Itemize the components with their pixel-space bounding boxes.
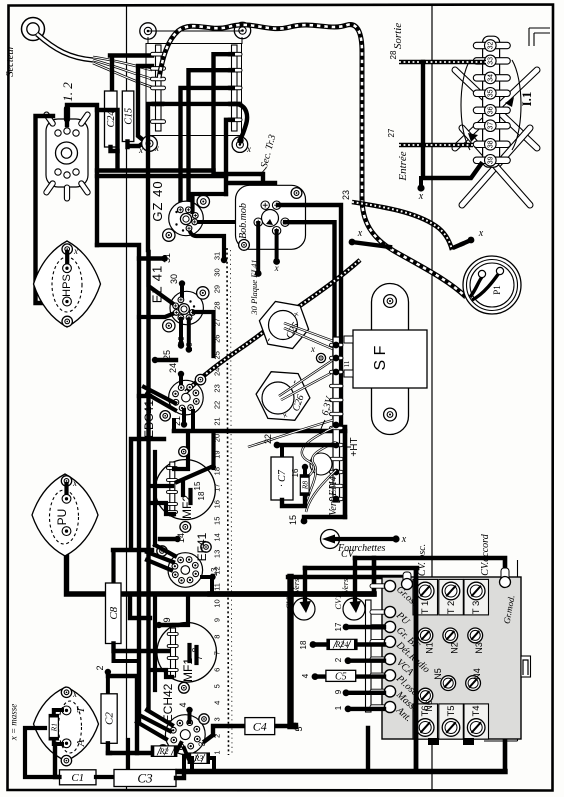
capacitor C1 bbox=[60, 770, 97, 785]
svg-text:25: 25 bbox=[162, 350, 172, 360]
svg-text:x: x bbox=[138, 145, 143, 155]
svg-text:CV.accord: CV.accord bbox=[480, 533, 491, 575]
block top-left pin bbox=[403, 572, 411, 586]
I.1 terminal 33 bbox=[473, 58, 510, 64]
terminal HPS top bbox=[63, 264, 72, 273]
wire I.1 ground leg bbox=[423, 62, 481, 178]
block bottom tabs bbox=[428, 738, 439, 745]
svg-text:23: 23 bbox=[213, 384, 222, 392]
svg-text:· C7: · C7 bbox=[277, 469, 288, 487]
svg-text:37: 37 bbox=[488, 122, 495, 130]
svg-text:x: x bbox=[357, 228, 363, 239]
solder blobs on strip bbox=[333, 342, 340, 349]
capacitor C7 bbox=[280, 445, 284, 457]
capacitor C2 bbox=[105, 669, 111, 675]
wire HPS terminal bar bbox=[65, 252, 69, 268]
wire C4 junction to bus bbox=[366, 728, 370, 771]
resistor R8 bbox=[302, 464, 308, 470]
pickup connector PU bbox=[32, 474, 98, 556]
svg-text:9: 9 bbox=[334, 689, 343, 694]
tube socket EL41 bbox=[170, 291, 203, 324]
wire R1 leads bbox=[54, 710, 62, 715]
wire trunk to EF41 bbox=[147, 552, 173, 562]
svg-text:30: 30 bbox=[213, 268, 222, 276]
svg-text:C5: C5 bbox=[335, 671, 347, 682]
svg-text:35: 35 bbox=[488, 89, 495, 97]
MF1 pin stubs bbox=[187, 645, 191, 661]
svg-text:PU: PU bbox=[55, 509, 69, 526]
wire trunk top join bbox=[97, 245, 139, 722]
wire trunk x213 mid bbox=[211, 433, 215, 468]
wire MF1 top feed bbox=[174, 596, 188, 625]
svg-text:x: x bbox=[72, 689, 77, 699]
svg-text:x: x bbox=[73, 246, 78, 256]
transformer screw top-left bbox=[140, 23, 156, 39]
socket 1.2 bbox=[43, 106, 91, 201]
svg-text:31: 31 bbox=[162, 253, 172, 263]
svg-text:14: 14 bbox=[213, 533, 222, 541]
wire node 9 bbox=[156, 622, 162, 628]
svg-text:C1: C1 bbox=[71, 772, 84, 784]
wire bottom bus bbox=[178, 769, 505, 774]
bracket rods I.1 bbox=[455, 70, 537, 148]
wire block left leg over block bbox=[414, 570, 419, 771]
wire socket pins to C3 bbox=[182, 756, 186, 769]
stub 1 bbox=[345, 706, 352, 713]
wire C26 leads to strip bbox=[279, 360, 333, 396]
svg-text:R1: R1 bbox=[49, 723, 58, 732]
terminal strip bbox=[333, 337, 340, 502]
wire mains lead 2 bbox=[93, 60, 152, 79]
svg-text:N4: N4 bbox=[472, 668, 482, 680]
wire C1 left border leg bbox=[25, 728, 60, 777]
svg-text:GZ 40: GZ 40 bbox=[150, 180, 165, 221]
resistor R2 bbox=[108, 751, 151, 755]
wire node 31 stub bbox=[139, 256, 163, 260]
svg-text:18: 18 bbox=[197, 491, 206, 500]
svg-text:6: 6 bbox=[213, 668, 222, 672]
resistor R3 bbox=[188, 753, 209, 763]
wire y548 bbox=[113, 439, 164, 550]
svg-text:21: 21 bbox=[213, 417, 222, 425]
braid Entree bbox=[399, 143, 473, 147]
grommet Secteur bbox=[22, 18, 45, 41]
connector T/A bbox=[34, 687, 99, 761]
wire twisted pair top run bbox=[159, 25, 466, 297]
wire PU terminal bar bbox=[64, 484, 68, 499]
wire transformer lug B bbox=[189, 70, 233, 207]
wire +HT vertical bbox=[343, 427, 348, 517]
I.1 terminal 34 bbox=[473, 75, 510, 81]
capacitor C4 bbox=[245, 718, 275, 735]
svg-text:1: 1 bbox=[334, 705, 343, 710]
svg-text:R2: R2 bbox=[159, 747, 169, 756]
wire trunk to MF2 bbox=[174, 433, 188, 469]
arrow Vers CV2 bbox=[303, 568, 307, 602]
wire trunk x147 bbox=[146, 252, 150, 710]
braided shield wire to C25 bbox=[186, 260, 360, 392]
wire node 26 stubs bbox=[179, 319, 183, 344]
wire C8 bottom leads bbox=[114, 644, 172, 652]
node 13 stub bbox=[202, 575, 211, 579]
switch body I.1 bbox=[461, 60, 521, 150]
svg-text:HPS: HPS bbox=[61, 274, 73, 297]
wire EL41 right pin riser bbox=[194, 312, 214, 356]
screw near GZ40 right bbox=[197, 195, 209, 207]
wire C3 to bottom bus bbox=[176, 772, 184, 778]
arrow Vers CV1 bbox=[353, 558, 357, 602]
svg-text:13: 13 bbox=[210, 567, 219, 576]
terminal HPS bottom bbox=[63, 297, 72, 306]
svg-text:x: x bbox=[310, 344, 315, 354]
I.1 terminal 38 bbox=[473, 141, 510, 147]
svg-text:C2: C2 bbox=[104, 712, 116, 725]
I.1 terminal 36 bbox=[473, 107, 510, 113]
wire CV osc run bbox=[305, 566, 417, 571]
wire CV riser left bbox=[291, 577, 296, 726]
pin Masse bbox=[370, 689, 386, 693]
ground bar x right bbox=[455, 244, 462, 247]
svg-text:ECH42: ECH42 bbox=[161, 683, 175, 722]
wire transformer lug E ground bbox=[236, 104, 247, 139]
potentiometer P1 bbox=[463, 256, 521, 314]
svg-text:29: 29 bbox=[213, 285, 222, 293]
stub 4 C5 bbox=[312, 673, 319, 680]
svg-text:Vers EM4: Vers EM4 bbox=[328, 476, 339, 515]
svg-text:4: 4 bbox=[213, 701, 222, 705]
svg-text:N6: N6 bbox=[424, 700, 434, 712]
svg-text:T 3: T 3 bbox=[471, 601, 482, 615]
label bracket top right bbox=[529, 28, 550, 46]
stub 18 R24 bbox=[310, 641, 317, 648]
svg-text:P1: P1 bbox=[492, 285, 502, 295]
EL41 pins bbox=[178, 297, 184, 303]
svg-text:C8: C8 bbox=[108, 606, 120, 619]
svg-text:15: 15 bbox=[213, 517, 222, 525]
svg-text:Entrée: Entrée bbox=[397, 151, 409, 181]
tube socket EF41 bbox=[168, 553, 203, 588]
wire Bob.mob to HT vertical right A bbox=[278, 205, 341, 427]
heater wires 6.3V bbox=[248, 420, 333, 447]
transformer mounting plate bbox=[146, 44, 242, 136]
pin Ant. bbox=[370, 705, 386, 709]
screw near GZ40 left bbox=[163, 229, 175, 241]
svg-text:5: 5 bbox=[213, 684, 222, 688]
svg-text:1: 1 bbox=[213, 750, 222, 754]
stub 17 bbox=[343, 624, 350, 631]
svg-text:A: A bbox=[75, 739, 87, 747]
svg-text:32: 32 bbox=[488, 42, 495, 50]
wire mains lead 1 bbox=[93, 57, 152, 70]
ground screw x left of transformer bbox=[145, 138, 156, 149]
svg-text:15: 15 bbox=[193, 481, 202, 490]
wire heater bus pair bbox=[97, 168, 214, 172]
ruler dashed line bbox=[227, 248, 229, 755]
pin Dét.Radio bbox=[370, 640, 386, 644]
wire PU bus riser bbox=[372, 558, 377, 594]
I.1 terminal 35 bbox=[473, 90, 510, 96]
ground x near strip bbox=[316, 353, 325, 362]
wire GZ40 bottom run bbox=[189, 228, 224, 258]
svg-text:MF2: MF2 bbox=[180, 495, 194, 519]
tube socket EBC41 bbox=[169, 380, 204, 415]
blob on I.1 rod bbox=[505, 97, 514, 107]
svg-text:2: 2 bbox=[95, 665, 105, 670]
wire trunk into EBC41 bbox=[144, 387, 175, 403]
wire node 30 stub bbox=[179, 280, 185, 286]
capacitor C3 bbox=[114, 770, 176, 787]
wire C1 right bbox=[96, 740, 128, 777]
wire to block top pin bbox=[288, 577, 409, 581]
wire node 4 stub bbox=[186, 707, 192, 713]
tuning unit block bbox=[382, 577, 521, 739]
svg-text:5: 5 bbox=[294, 726, 304, 731]
MF2 pin stubs bbox=[181, 482, 185, 495]
svg-text:36: 36 bbox=[488, 106, 495, 114]
svg-text:T: T bbox=[75, 706, 87, 713]
wire CV accord run bbox=[355, 558, 505, 771]
wire stub EBC41 left bbox=[139, 394, 150, 398]
svg-text:x: x bbox=[246, 144, 251, 154]
svg-text:13: 13 bbox=[213, 550, 222, 558]
tube socket ECH42 bbox=[165, 715, 205, 755]
wire C15 top bbox=[138, 66, 152, 140]
svg-text:23: 23 bbox=[341, 190, 351, 200]
svg-text:3: 3 bbox=[213, 717, 222, 721]
svg-text:8: 8 bbox=[191, 647, 200, 652]
svg-text:1. 2: 1. 2 bbox=[60, 82, 75, 102]
svg-text:16: 16 bbox=[213, 500, 222, 508]
svg-text:S F: S F bbox=[372, 345, 389, 370]
svg-text:CV1: CV1 bbox=[333, 594, 343, 609]
wire T/A to C1 bbox=[55, 744, 60, 777]
white cells T1 T2 T3 bbox=[413, 579, 438, 615]
trimmer N6 bbox=[418, 688, 433, 703]
svg-text:CV. osc.: CV. osc. bbox=[417, 544, 428, 576]
screw below MF1 bbox=[179, 682, 190, 693]
electrolytic capacitor C26 bbox=[256, 372, 310, 421]
svg-text:x: x bbox=[478, 228, 484, 239]
svg-text:11: 11 bbox=[343, 360, 351, 367]
transformer screw bottom-left x bbox=[142, 136, 158, 152]
svg-text:Sortie: Sortie bbox=[392, 23, 404, 49]
thin panel line bottom right bbox=[484, 560, 518, 741]
wire trunk into EL41 pins bbox=[149, 252, 176, 306]
braided wire 23 bbox=[352, 202, 452, 250]
wire trunk x155 bbox=[153, 452, 157, 545]
braid Sortie bbox=[399, 60, 486, 64]
wire R3 right down bbox=[209, 758, 214, 771]
svg-text:26: 26 bbox=[185, 342, 194, 351]
svg-text:N1: N1 bbox=[424, 642, 434, 654]
chassis dividing line right bbox=[431, 5, 433, 790]
wire C2 bottom bbox=[108, 743, 110, 753]
wire PU to bus bbox=[67, 531, 375, 594]
ground bar x mid bbox=[349, 239, 356, 246]
transformer right rail bbox=[232, 45, 238, 131]
wire EBC41 to HT bus bbox=[191, 411, 195, 431]
wire C7 R8 bottom join bbox=[282, 495, 305, 506]
wire transformer lug C bbox=[181, 88, 233, 207]
transformer left rail bbox=[156, 45, 162, 131]
svg-text:17: 17 bbox=[213, 484, 222, 492]
pin PU bbox=[370, 610, 386, 614]
svg-text:R3: R3 bbox=[193, 754, 203, 763]
svg-text:27: 27 bbox=[387, 128, 396, 137]
wire Bob.mob to HT vertical right B bbox=[285, 222, 334, 427]
wire C4 run bbox=[205, 726, 295, 741]
svg-text:38: 38 bbox=[488, 140, 495, 148]
svg-text:9: 9 bbox=[213, 618, 222, 622]
label EF41 bbox=[201, 542, 211, 552]
wire MF2 top diagonal bbox=[177, 466, 214, 482]
wire transformer lug D to left rail bbox=[148, 104, 233, 250]
SF winding lugs bbox=[344, 336, 353, 343]
wire node 25 stub bbox=[152, 357, 158, 363]
svg-text:C15: C15 bbox=[123, 108, 134, 125]
svg-text:24: 24 bbox=[168, 363, 178, 373]
svg-text:39: 39 bbox=[488, 156, 495, 164]
white cells T6 T5 T4 bbox=[413, 704, 438, 739]
wire MF1 bottom feed bbox=[149, 670, 172, 677]
svg-text:4: 4 bbox=[301, 673, 310, 678]
svg-text:34: 34 bbox=[488, 74, 495, 82]
svg-text:31: 31 bbox=[213, 252, 222, 260]
svg-text:x: x bbox=[401, 534, 407, 545]
svg-text:x: x bbox=[72, 478, 77, 488]
screw below MF2 bbox=[180, 522, 191, 533]
wire socket 1.2 top feed bbox=[67, 105, 97, 245]
wire C24 top to transformer lug bbox=[110, 56, 152, 92]
svg-text:I.1: I.1 bbox=[519, 92, 534, 107]
svg-text:T 2: T 2 bbox=[446, 601, 457, 615]
svg-text:R8: R8 bbox=[300, 481, 309, 491]
output transformer SF bbox=[372, 284, 409, 330]
tube socket GZ40 bbox=[169, 201, 204, 236]
svg-text:2: 2 bbox=[334, 657, 343, 662]
speaker connector HPS bbox=[34, 241, 101, 327]
wire socket 1.2 to HPS via border bbox=[36, 116, 63, 303]
svg-text:N5: N5 bbox=[433, 668, 443, 680]
wire bus y594 right segment bbox=[210, 591, 374, 596]
resistor R1 bbox=[49, 715, 58, 740]
trimmers N1 N2 N3 bbox=[418, 628, 433, 643]
block pin rail bbox=[366, 600, 372, 712]
wire C25 leads to strip bbox=[284, 323, 333, 341]
svg-text:Vers: Vers bbox=[340, 578, 350, 593]
Fourchettes CV arrow bbox=[321, 530, 340, 549]
svg-text:T4: T4 bbox=[471, 705, 482, 716]
grommet wire loop bbox=[310, 453, 332, 475]
IF transformer MF2 bbox=[155, 460, 215, 520]
wire C15 bottom to ground screw bbox=[128, 141, 147, 147]
IF transformer MF1 bbox=[157, 623, 217, 683]
svg-text:17: 17 bbox=[334, 622, 343, 631]
wire node 24 stub bbox=[178, 371, 184, 377]
svg-text:8: 8 bbox=[213, 635, 222, 639]
svg-text:10: 10 bbox=[213, 599, 222, 607]
svg-text:4: 4 bbox=[178, 702, 188, 707]
pin Gr. BF bbox=[370, 625, 386, 629]
capacitor C24 bbox=[105, 91, 118, 147]
wire node 21 stub bbox=[182, 410, 186, 423]
transformer screw top-right bbox=[234, 22, 250, 38]
svg-text:16: 16 bbox=[291, 468, 300, 477]
svg-text:T5: T5 bbox=[446, 705, 457, 716]
pin Gr.osc. bbox=[370, 584, 386, 588]
wire node 22 bar bbox=[274, 442, 281, 449]
svg-text:x: x bbox=[274, 263, 279, 273]
svg-text:x = masse: x = masse bbox=[9, 704, 19, 742]
svg-text:x: x bbox=[418, 191, 424, 202]
svg-text:C24: C24 bbox=[106, 111, 117, 128]
svg-text:28: 28 bbox=[213, 301, 222, 309]
wire inner loop to bus bbox=[97, 110, 118, 170]
wire Bob.mob pin 30 down bbox=[256, 223, 260, 272]
stub 2 bbox=[345, 657, 352, 664]
Gr.mod pin bbox=[501, 568, 509, 582]
svg-text:18: 18 bbox=[299, 640, 308, 649]
svg-text:N3: N3 bbox=[474, 642, 484, 654]
svg-text:Bob.mob: Bob.mob bbox=[238, 203, 249, 239]
svg-text:22: 22 bbox=[263, 434, 273, 444]
wire trunk into ECH42 bbox=[139, 715, 170, 731]
wire HT bus horizontal bbox=[174, 429, 345, 434]
wire mains lead 3 bbox=[93, 63, 152, 87]
svg-text:Secteur: Secteur bbox=[5, 44, 16, 76]
wire GZ40 gamma feed bbox=[193, 194, 227, 212]
svg-text:9: 9 bbox=[162, 617, 172, 622]
pin VCA bbox=[370, 657, 386, 661]
trimmers N5 N4 bbox=[441, 676, 456, 691]
P1 lead wires bbox=[470, 277, 482, 297]
chassis dividing line left bbox=[126, 5, 128, 790]
I.1 terminal 32 bbox=[473, 42, 510, 48]
svg-text:15: 15 bbox=[288, 515, 298, 525]
wire Bob.mob pin to x ground bbox=[275, 231, 279, 259]
svg-text:R24: R24 bbox=[335, 640, 349, 649]
svg-text:N2: N2 bbox=[449, 642, 459, 654]
svg-text:22: 22 bbox=[213, 401, 222, 409]
wire 15 run bbox=[304, 515, 345, 519]
wire R2 to socket bbox=[177, 743, 181, 751]
svg-text:7: 7 bbox=[195, 655, 204, 660]
wire node 14 bbox=[160, 537, 176, 541]
wire C2 top to trunk bbox=[108, 676, 137, 753]
svg-text:MF1: MF1 bbox=[181, 658, 195, 682]
wire transformer lug to GZ40 bus A bbox=[214, 54, 264, 198]
wire transformer bottom lug to bus bbox=[226, 120, 275, 198]
svg-text:C3: C3 bbox=[137, 771, 153, 786]
vibrator socket Bob.mob bbox=[236, 185, 306, 249]
wire y594-617 drop bbox=[130, 594, 150, 618]
wire C8 top bbox=[111, 551, 115, 583]
block right bracket bbox=[521, 656, 531, 677]
I.1 terminal 39 bbox=[473, 157, 510, 163]
svg-text:30: 30 bbox=[169, 274, 179, 284]
wire mains cable bbox=[37, 34, 93, 60]
svg-text:C4: C4 bbox=[253, 719, 267, 733]
screw above MF2 bbox=[179, 447, 189, 457]
I.1 terminal 37 bbox=[473, 123, 510, 129]
pin Pl.osc. bbox=[370, 673, 386, 677]
svg-text:28: 28 bbox=[389, 50, 398, 59]
electrolytic capacitor C25 bbox=[259, 302, 308, 349]
wire GZ40 to Bob.mob left pin bbox=[196, 220, 254, 224]
stub 9 bbox=[343, 689, 350, 696]
wire C24 bottom jog bbox=[111, 147, 118, 151]
capacitor C8 bbox=[106, 583, 122, 644]
